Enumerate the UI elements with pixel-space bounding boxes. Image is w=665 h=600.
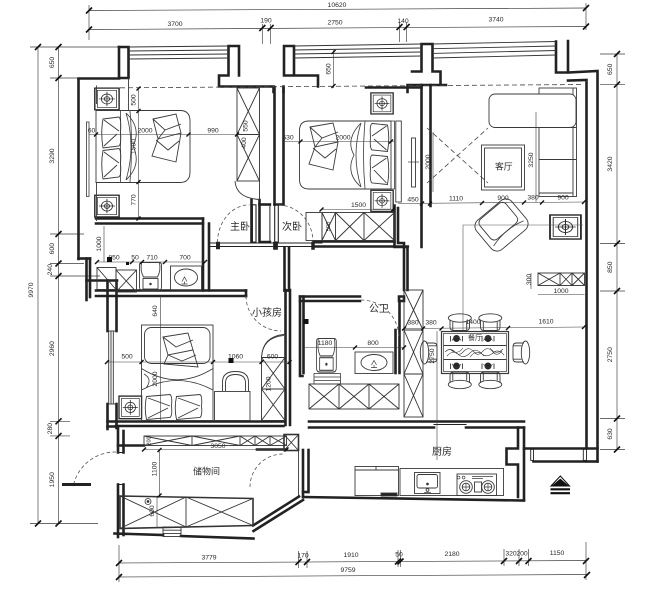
svg-text:50: 50 xyxy=(131,255,139,262)
bed 次卧 xyxy=(300,121,392,189)
svg-text:1200: 1200 xyxy=(266,376,273,391)
svg-text:630: 630 xyxy=(282,135,294,142)
svg-text:小孩房: 小孩房 xyxy=(252,306,282,319)
svg-text:650: 650 xyxy=(607,63,614,75)
kids bed pillows xyxy=(145,395,172,420)
svg-text:380: 380 xyxy=(527,195,539,202)
window bay1 xyxy=(129,46,229,47)
window kids west xyxy=(108,331,110,404)
svg-text:2000: 2000 xyxy=(335,135,350,142)
quilt master crumple xyxy=(152,114,181,162)
shoe cabinet living X xyxy=(538,273,585,286)
svg-text:170: 170 xyxy=(297,553,309,560)
svg-text:600: 600 xyxy=(267,354,279,361)
door leaf storage xyxy=(62,483,91,486)
svg-text:320: 320 xyxy=(505,551,517,558)
pillow 次卧 1 xyxy=(370,124,389,152)
svg-text:主卧: 主卧 xyxy=(230,220,250,233)
svg-text:3779: 3779 xyxy=(201,555,216,562)
door arc storage west xyxy=(73,452,116,487)
svg-text:400: 400 xyxy=(241,137,248,149)
wall corridor north line xyxy=(209,243,322,247)
svg-text:公卫: 公卫 xyxy=(369,304,389,315)
dining chair bottom2 xyxy=(479,372,502,389)
dim top row2 line xyxy=(89,27,586,30)
north arrow xyxy=(551,476,570,486)
kids chair xyxy=(223,372,249,392)
dining chair right xyxy=(521,341,529,364)
svg-text:380: 380 xyxy=(425,320,437,327)
svg-text:280: 280 xyxy=(47,423,54,435)
wall pier bay2-bay3 xyxy=(408,44,447,92)
svg-text:300: 300 xyxy=(526,274,533,286)
svg-text:1180: 1180 xyxy=(318,340,333,347)
ceiling symbol 次卧 bottom xyxy=(371,190,393,211)
wall top-right pier and corner xyxy=(556,41,598,462)
kids desk xyxy=(215,392,251,421)
svg-text:1910: 1910 xyxy=(343,552,358,559)
svg-text:1500: 1500 xyxy=(351,202,366,209)
washing machine X xyxy=(97,268,116,290)
wall stub between doors xyxy=(250,200,253,242)
door jamb blocks xyxy=(216,242,219,249)
kids wardrobe X xyxy=(262,335,286,421)
wardrobe 次卧 X band xyxy=(322,213,395,241)
svg-text:3700: 3700 xyxy=(167,21,182,28)
ceiling symbol living xyxy=(550,215,581,239)
dim line master horizontal xyxy=(89,134,260,136)
svg-text:3250: 3250 xyxy=(528,152,535,167)
storage steps xyxy=(163,527,181,537)
storage NE column xyxy=(284,435,299,451)
kitchen slide door xyxy=(434,424,466,426)
pillow master 1 xyxy=(102,117,121,148)
svg-text:770: 770 xyxy=(131,194,138,206)
svg-text:50: 50 xyxy=(395,552,403,559)
ceiling symbol kids xyxy=(119,396,142,419)
svg-text:500: 500 xyxy=(131,94,138,106)
svg-text:900: 900 xyxy=(557,195,569,202)
svg-text:140: 140 xyxy=(397,18,409,25)
window bay3 xyxy=(433,42,557,45)
dim left column xyxy=(30,47,128,524)
svg-text:710: 710 xyxy=(146,255,158,262)
svg-text:650: 650 xyxy=(326,63,333,75)
kids quilt crumple xyxy=(163,333,198,367)
pillow 次卧 2 xyxy=(370,155,389,185)
floor boundary living/dining xyxy=(463,225,583,330)
storage band circle symbol xyxy=(145,499,151,505)
svg-text:60: 60 xyxy=(88,128,96,135)
svg-text:2000: 2000 xyxy=(152,371,159,386)
svg-text:800: 800 xyxy=(367,340,379,347)
wardrobe master X xyxy=(237,88,260,181)
kids bed fold xyxy=(142,369,214,391)
dim line 次卧 xyxy=(284,141,394,143)
svg-text:1400: 1400 xyxy=(465,319,480,326)
bath mat 公卫 xyxy=(314,374,341,385)
svg-text:1610: 1610 xyxy=(538,319,553,326)
wall kitchen-rightwall connector xyxy=(524,447,598,450)
coffee table xyxy=(482,145,525,190)
svg-text:850: 850 xyxy=(607,261,614,273)
kids bed xyxy=(142,325,214,421)
dining chair left xyxy=(420,341,428,364)
svg-text:2180: 2180 xyxy=(444,551,459,558)
svg-text:200: 200 xyxy=(147,436,153,445)
wall kids north-east stub xyxy=(283,248,286,291)
dining plates xyxy=(454,336,492,370)
vanity 公卫 xyxy=(355,352,393,374)
tick marks top xyxy=(86,8,92,14)
svg-text:9759: 9759 xyxy=(340,567,355,574)
svg-text:190: 190 xyxy=(260,18,272,25)
svg-text:600: 600 xyxy=(149,505,156,517)
duct column X xyxy=(404,290,423,417)
toilet master xyxy=(140,263,162,291)
dining chair top1 xyxy=(448,314,471,331)
armchair living xyxy=(472,196,532,255)
black markers xyxy=(107,257,309,363)
svg-text:640: 640 xyxy=(152,305,159,317)
wall kids east xyxy=(284,290,287,425)
dim line dining top xyxy=(404,327,584,329)
svg-text:380: 380 xyxy=(407,320,419,327)
svg-text:1000: 1000 xyxy=(96,236,103,251)
toilet 公卫 xyxy=(317,339,337,373)
svg-text:1110: 1110 xyxy=(449,196,463,203)
dim right column xyxy=(600,54,625,450)
wall storage diagonal xyxy=(253,497,299,526)
svg-text:650: 650 xyxy=(49,57,56,69)
wall kitchen north xyxy=(309,420,524,423)
wall kids south xyxy=(108,420,284,423)
dashed diagonals TV xyxy=(427,128,488,183)
window bay2 xyxy=(294,44,422,46)
svg-text:2750: 2750 xyxy=(327,20,342,27)
dim line kids xyxy=(107,361,290,363)
kitchen sink xyxy=(415,473,441,494)
bed master xyxy=(96,111,190,183)
svg-text:10620: 10620 xyxy=(328,2,347,9)
svg-text:9970: 9970 xyxy=(28,282,35,297)
svg-text:550: 550 xyxy=(243,120,250,132)
wall storage west step xyxy=(108,427,119,453)
公卫 south closet band xyxy=(309,384,399,409)
wall storage north xyxy=(118,444,144,447)
TV board 次卧 xyxy=(412,138,416,187)
beam dashed line xyxy=(96,85,583,89)
wall 次卧 east xyxy=(420,85,423,247)
door arc 主卧 xyxy=(218,205,250,243)
door arc 次卧 xyxy=(278,205,313,242)
dining table xyxy=(442,332,509,374)
svg-text:500: 500 xyxy=(121,354,133,361)
door leaf 主卧 xyxy=(252,205,256,242)
svg-text:1500: 1500 xyxy=(131,139,138,154)
svg-text:1950: 1950 xyxy=(49,472,56,487)
wall corridor south / bath south band xyxy=(96,289,246,292)
svg-text:2750: 2750 xyxy=(429,348,436,363)
wall kitchen east xyxy=(507,428,519,498)
nightstand lines master xyxy=(96,86,98,105)
bed-side trim master xyxy=(87,122,90,197)
wall left step xyxy=(79,257,91,260)
svg-text:餐厅: 餐厅 xyxy=(468,333,482,342)
svg-text:700: 700 xyxy=(179,255,191,262)
svg-text:储物间: 储物间 xyxy=(193,466,220,477)
door arc 公卫 xyxy=(361,300,399,338)
wall corridor west xyxy=(202,219,205,291)
wall left outer xyxy=(77,79,80,259)
pillow master 2 xyxy=(102,149,121,180)
dim top total 10620 line xyxy=(89,8,586,11)
wall pier bay1-bay2 xyxy=(219,46,318,92)
svg-text:3050: 3050 xyxy=(210,443,225,450)
dining chair top2 xyxy=(479,314,502,331)
svg-text:2960: 2960 xyxy=(49,341,56,356)
svg-text:2000: 2000 xyxy=(137,128,152,135)
svg-text:2000: 2000 xyxy=(425,154,432,169)
sink master xyxy=(171,266,202,290)
quilt 次卧 crumple xyxy=(309,123,338,170)
storage top band xyxy=(144,436,287,446)
svg-text:600: 600 xyxy=(49,243,56,255)
ceiling symbol master top xyxy=(95,88,119,110)
ceiling symbol master bottom xyxy=(95,195,119,217)
wall master-south xyxy=(96,217,203,220)
kitchen counter xyxy=(400,469,504,496)
svg-text:500: 500 xyxy=(326,222,332,232)
door leaf 次卧 xyxy=(275,205,279,243)
dining runner xyxy=(444,346,507,360)
svg-text:900: 900 xyxy=(497,195,509,202)
svg-text:1100: 1100 xyxy=(152,461,159,476)
dim line corridor xyxy=(97,261,205,263)
svg-text:630: 630 xyxy=(607,428,614,440)
storage bottom band X xyxy=(120,496,253,529)
wall kids west xyxy=(106,281,109,332)
dim bottom rows xyxy=(119,542,587,582)
svg-text:1150: 1150 xyxy=(550,550,565,557)
door arc storage east xyxy=(250,454,283,487)
wall 公卫 box xyxy=(300,297,303,377)
dining chair bottom1 xyxy=(448,372,471,389)
svg-text:2750: 2750 xyxy=(607,347,614,362)
wall bedroom divider 主卧/次卧 xyxy=(273,87,276,205)
dim line shoe cab xyxy=(538,294,585,296)
sofa right xyxy=(539,88,577,197)
blanket master curves xyxy=(126,113,136,180)
wall kitchen west xyxy=(302,450,305,497)
svg-text:客厅: 客厅 xyxy=(495,161,513,172)
blanket 次卧 curves xyxy=(351,123,361,187)
svg-text:3420: 3420 xyxy=(607,156,614,171)
wall inner sill 次卧 xyxy=(366,86,422,89)
svg-text:1000: 1000 xyxy=(553,288,568,295)
dim line 公卫 xyxy=(303,347,404,349)
dim line storage xyxy=(144,449,287,451)
svg-text:3290: 3290 xyxy=(49,148,56,163)
wall kitchen south xyxy=(303,497,524,501)
svg-text:990: 990 xyxy=(207,128,219,135)
sofa top xyxy=(489,94,576,128)
svg-text:3740: 3740 xyxy=(488,17,503,24)
wall under wardrobe2 xyxy=(314,240,395,243)
kitchen stove xyxy=(457,474,497,496)
ceiling symbol 次卧 top xyxy=(371,93,393,114)
svg-text:厨房: 厨房 xyxy=(432,445,452,458)
svg-text:次卧: 次卧 xyxy=(282,220,302,233)
wall top-left pier xyxy=(79,47,120,79)
dim line living bottom xyxy=(398,202,584,204)
svg-text:200: 200 xyxy=(516,551,528,558)
svg-text:450: 450 xyxy=(407,197,419,204)
svg-text:240: 240 xyxy=(47,264,54,276)
door arc kids xyxy=(246,296,281,331)
wall storage bottom xyxy=(115,534,164,536)
